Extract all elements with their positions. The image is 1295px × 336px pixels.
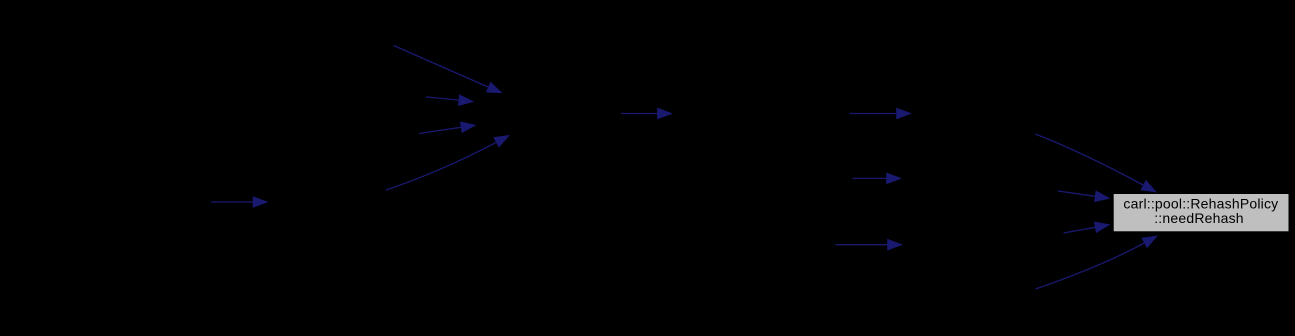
edge E12: node11 -> needRehash (short arrow into left edge lower) — [1064, 222, 1111, 234]
edge E2: node4 -> hub (short arrow slightly down) — [426, 94, 474, 106]
edge E4: node2 -> hub (curved arrow) — [386, 135, 510, 190]
edge E8: node8 -> node9 (horizontal arrow) — [853, 173, 903, 185]
edge E11: node9 -> needRehash (short arrow into left edge upper) — [1058, 190, 1111, 202]
svg-text:::needRehash: ::needRehash — [1154, 210, 1244, 226]
edge E1: node3 -> hub (long diagonal arrow) — [394, 46, 503, 94]
node needRehash: carl::pool::RehashPolicy::needRehash (visible grey node) — [1113, 194, 1289, 232]
edge E13: node12 -> needRehash (curved arrow into bottom edge) — [1036, 236, 1159, 290]
edge E7: node6 -> node7 (horizontal arrow) — [850, 108, 913, 120]
edge E5: node1 -> node2 (horizontal arrow) — [211, 196, 269, 208]
edge E6: hub -> node6 (horizontal arrow) — [621, 108, 673, 120]
edge E10: node7 -> needRehash (long curved arrow into top edge) — [1035, 134, 1157, 193]
edge E9: node10 -> node11 (horizontal arrow) — [836, 239, 904, 251]
edge E3: node5 -> hub (short arrow slightly up) — [419, 122, 477, 134]
